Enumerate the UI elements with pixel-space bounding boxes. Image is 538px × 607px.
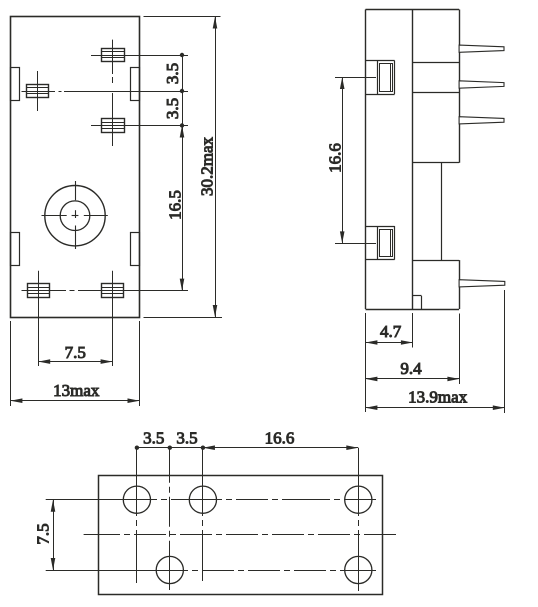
- svg-text:3.5: 3.5: [163, 63, 182, 84]
- svg-text:7.5: 7.5: [65, 343, 86, 362]
- svg-text:13max: 13max: [53, 381, 100, 400]
- svg-text:4.7: 4.7: [380, 322, 402, 341]
- svg-text:13.9max: 13.9max: [408, 388, 468, 407]
- svg-text:3.5: 3.5: [176, 428, 197, 447]
- svg-text:9.4: 9.4: [400, 359, 422, 378]
- svg-text:16.5: 16.5: [166, 190, 185, 220]
- svg-text:16.6: 16.6: [326, 143, 345, 173]
- svg-text:7.5: 7.5: [34, 523, 53, 544]
- svg-text:30.2max: 30.2max: [198, 136, 217, 196]
- svg-text:3.5: 3.5: [143, 428, 164, 447]
- svg-text:3.5: 3.5: [163, 98, 182, 119]
- svg-text:16.6: 16.6: [265, 428, 295, 447]
